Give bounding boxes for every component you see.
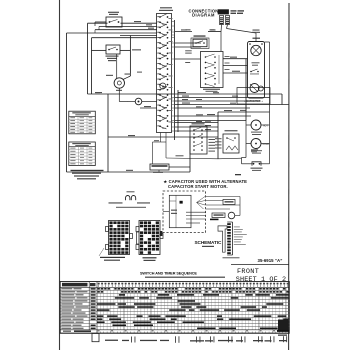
svg-text:M: M <box>162 84 164 88</box>
svg-text:SWITCH AND TIMER SEQUENCE: SWITCH AND TIMER SEQUENCE <box>140 272 197 276</box>
svg-text:+ CAPACITOR +: + CAPACITOR + <box>244 100 263 103</box>
svg-text:35-6915 “A”: 35-6915 “A” <box>258 258 283 263</box>
svg-text:SCHEMATIC: SCHEMATIC <box>195 240 222 245</box>
svg-text:HOT: HOT <box>263 126 268 128</box>
svg-text:SHEET 1 OF 2: SHEET 1 OF 2 <box>236 276 286 284</box>
svg-text:CAPACITOR START MOTOR.: CAPACITOR START MOTOR. <box>168 184 228 189</box>
svg-text:COLD: COLD <box>263 144 270 146</box>
svg-text:DIAGRAM: DIAGRAM <box>192 13 215 18</box>
